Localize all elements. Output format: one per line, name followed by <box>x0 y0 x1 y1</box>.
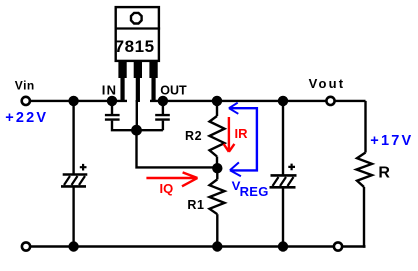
wire capacitor C1 top lead <box>72 101 74 175</box>
terminal bottom right <box>334 242 342 250</box>
svg-text:+17V: +17V <box>370 133 413 149</box>
svg-text:Vin: Vin <box>15 78 35 92</box>
svg-text:IQ: IQ <box>160 181 174 196</box>
capacitor C1 hatch slashes <box>64 176 85 185</box>
terminal Vin <box>22 97 30 105</box>
svg-text:+22V: +22V <box>5 110 48 126</box>
wire R2 bottom lead <box>216 157 218 169</box>
node junction dot ground mid <box>131 125 142 136</box>
svg-text:IR: IR <box>235 126 249 141</box>
capacitor C4 hatch slashes <box>273 177 294 186</box>
terminal Vout <box>326 97 334 105</box>
wire R2 top lead <box>216 101 218 116</box>
arrow IQ current (red) <box>146 172 197 186</box>
capacitor C1 electrolytic plates <box>61 175 87 187</box>
terminal bottom left <box>22 242 30 250</box>
resistor R <box>357 153 373 188</box>
arrow bracket VREG arrowhead top (blue) <box>229 103 238 114</box>
regulator U1 pin 2 GND leg <box>134 61 142 102</box>
capacitor C3 ceramic plates <box>155 115 170 120</box>
capacitor C4 electrolytic plates <box>270 175 297 187</box>
regulator U1 pin 3 OUT leg <box>149 61 157 102</box>
arrow IR current (red) <box>224 117 235 152</box>
node junction dot Vin rail <box>68 96 78 106</box>
node junction dot C4 top <box>278 96 288 106</box>
wire R1 bottom lead <box>216 214 218 246</box>
svg-text:IN: IN <box>102 83 117 98</box>
svg-text:R1: R1 <box>187 198 204 212</box>
regulator U1 mounting hole <box>131 13 142 24</box>
wire capacitor C2 leads and ground run <box>112 101 163 130</box>
wire ground drop from middle node to R1 R2 junction <box>137 130 218 167</box>
wire capacitor C4 top lead <box>282 101 284 175</box>
wire resistor R bottom to bottom rail <box>364 187 366 247</box>
regulator U1 7815 package body <box>116 7 159 61</box>
wire R1 top lead <box>216 168 218 179</box>
svg-text:R2: R2 <box>185 129 202 143</box>
svg-text:Vout: Vout <box>309 76 346 91</box>
node junction dot R1 R2 midpoint <box>212 163 222 173</box>
wire top rail left segment <box>28 100 127 102</box>
node junction dot OUT pin <box>158 96 168 106</box>
wire capacitor C1 bottom lead <box>72 186 74 246</box>
regulator U1 pin 1 IN leg <box>118 61 126 102</box>
wire regulator GND pin lead <box>136 100 138 130</box>
svg-text:OUT: OUT <box>160 84 187 98</box>
wire top rail right segment <box>150 100 366 102</box>
wire right branch drop to resistor R <box>364 101 366 153</box>
regulator U1 tab divider <box>115 27 161 29</box>
wire capacitor C4 bottom lead <box>282 187 284 246</box>
svg-text:R: R <box>378 165 390 182</box>
node junction dot IN pin <box>107 96 117 106</box>
resistor R1 <box>210 179 225 214</box>
resistor R2 <box>210 116 225 157</box>
capacitor C2 ceramic plates <box>105 115 120 120</box>
node junction dot R1 bottom <box>212 241 222 251</box>
capacitor C4 plus sign <box>288 164 295 171</box>
node junction dot R2 top <box>212 96 222 106</box>
wire bottom rail <box>26 245 366 247</box>
capacitor C1 plus sign <box>80 164 87 171</box>
arrow bracket VREG shaft (blue) <box>230 108 257 170</box>
node junction dot C1 bottom <box>68 241 78 251</box>
svg-text:7815: 7815 <box>115 37 155 56</box>
node junction dot C4 bottom <box>278 241 288 251</box>
svg-text:REG: REG <box>240 184 269 199</box>
arrow bracket VREG arrowhead bottom (blue) <box>230 162 241 176</box>
